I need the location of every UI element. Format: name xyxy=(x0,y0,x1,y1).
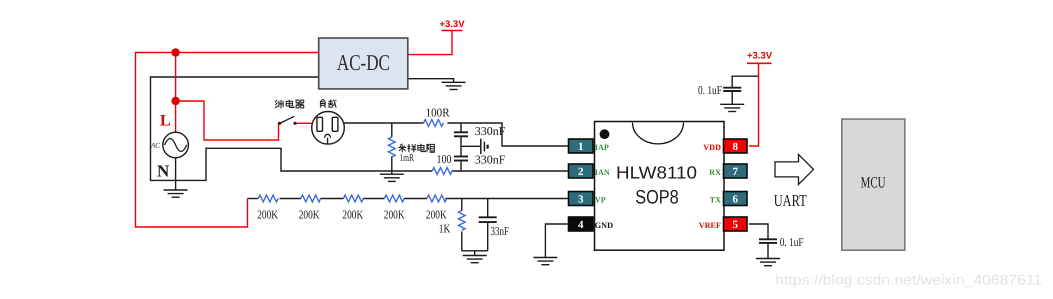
svg-text:VREF: VREF xyxy=(699,221,721,230)
svg-text:HLW8110: HLW8110 xyxy=(616,162,697,182)
svg-text:N: N xyxy=(157,162,170,181)
svg-text:GND: GND xyxy=(595,221,613,230)
svg-text:1mR: 1mR xyxy=(399,153,414,164)
svg-text:4: 4 xyxy=(578,219,584,231)
svg-text:8: 8 xyxy=(732,141,738,153)
svg-text:2: 2 xyxy=(578,166,584,178)
svg-text:200K: 200K xyxy=(342,208,363,222)
svg-text:100R: 100R xyxy=(426,106,450,120)
svg-text:SOP8: SOP8 xyxy=(635,187,679,209)
svg-text:0. 1uF: 0. 1uF xyxy=(698,83,722,97)
svg-text:AC-DC: AC-DC xyxy=(337,50,390,75)
svg-text:VP: VP xyxy=(595,195,606,204)
svg-text:1K: 1K xyxy=(439,222,451,236)
svg-text:TX: TX xyxy=(710,195,721,204)
svg-text:UART: UART xyxy=(774,191,807,210)
svg-text:+3.3V: +3.3V xyxy=(439,19,465,30)
svg-text:L: L xyxy=(160,113,171,130)
svg-text:100: 100 xyxy=(437,152,452,166)
svg-text:RX: RX xyxy=(709,168,721,177)
svg-text:AC: AC xyxy=(150,142,160,150)
svg-text:IAN: IAN xyxy=(595,168,610,177)
svg-text:https://blog.csdn.net/weixin_4: https://blog.csdn.net/weixin_40687611 xyxy=(775,271,1042,287)
svg-text:5: 5 xyxy=(732,219,738,231)
svg-text:VDD: VDD xyxy=(703,143,721,152)
svg-text:200K: 200K xyxy=(426,208,447,222)
svg-text:200K: 200K xyxy=(384,208,405,222)
svg-text:200K: 200K xyxy=(257,208,278,222)
svg-text:3: 3 xyxy=(578,194,584,206)
svg-text:0. 1uF: 0. 1uF xyxy=(780,235,804,249)
svg-text:330nF: 330nF xyxy=(475,153,506,167)
svg-text:200K: 200K xyxy=(299,208,320,222)
svg-text:IAP: IAP xyxy=(595,143,609,152)
svg-text:+3.3V: +3.3V xyxy=(747,51,773,62)
svg-text:6: 6 xyxy=(732,194,738,206)
svg-text:1: 1 xyxy=(578,141,584,153)
svg-text:33nF: 33nF xyxy=(491,224,510,238)
svg-text:330nF: 330nF xyxy=(475,124,506,138)
svg-text:7: 7 xyxy=(732,166,738,178)
svg-text:MCU: MCU xyxy=(861,174,886,191)
